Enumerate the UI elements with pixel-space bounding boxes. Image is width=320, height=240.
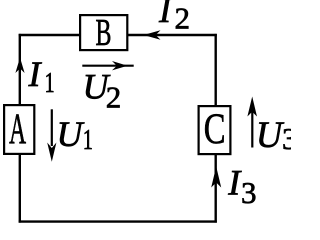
label I2 xyxy=(158,0,190,35)
current arrow I3 xyxy=(211,167,221,188)
label I3 xyxy=(227,163,256,211)
wire bottom xyxy=(19,220,217,222)
svg-text:U: U xyxy=(256,114,285,155)
box C xyxy=(199,106,231,154)
label U1 xyxy=(57,114,93,156)
label I1 xyxy=(28,54,55,99)
svg-text:I: I xyxy=(28,54,43,94)
svg-text:B: B xyxy=(96,11,112,53)
svg-text:A: A xyxy=(9,104,26,153)
svg-text:3: 3 xyxy=(241,175,257,210)
wire right xyxy=(214,34,216,223)
box B xyxy=(80,15,127,50)
svg-text:C: C xyxy=(204,106,226,154)
box A xyxy=(4,105,34,154)
svg-text:2: 2 xyxy=(106,80,122,115)
svg-text:1: 1 xyxy=(83,124,93,155)
current arrow I2 xyxy=(144,30,161,39)
wire top xyxy=(19,34,217,36)
voltage arrow U1 (down) xyxy=(47,109,56,162)
svg-text:U: U xyxy=(57,114,85,154)
wire left xyxy=(19,34,21,223)
current arrow I1 xyxy=(15,58,24,74)
voltage arrow U2 (right) xyxy=(82,61,133,70)
voltage arrow U3 (up) xyxy=(247,97,257,148)
svg-text:I: I xyxy=(158,0,173,30)
label U2 xyxy=(83,66,122,114)
svg-text:1: 1 xyxy=(45,67,55,98)
label U3 xyxy=(256,114,298,156)
svg-text:2: 2 xyxy=(175,0,191,35)
svg-text:3: 3 xyxy=(282,121,291,156)
